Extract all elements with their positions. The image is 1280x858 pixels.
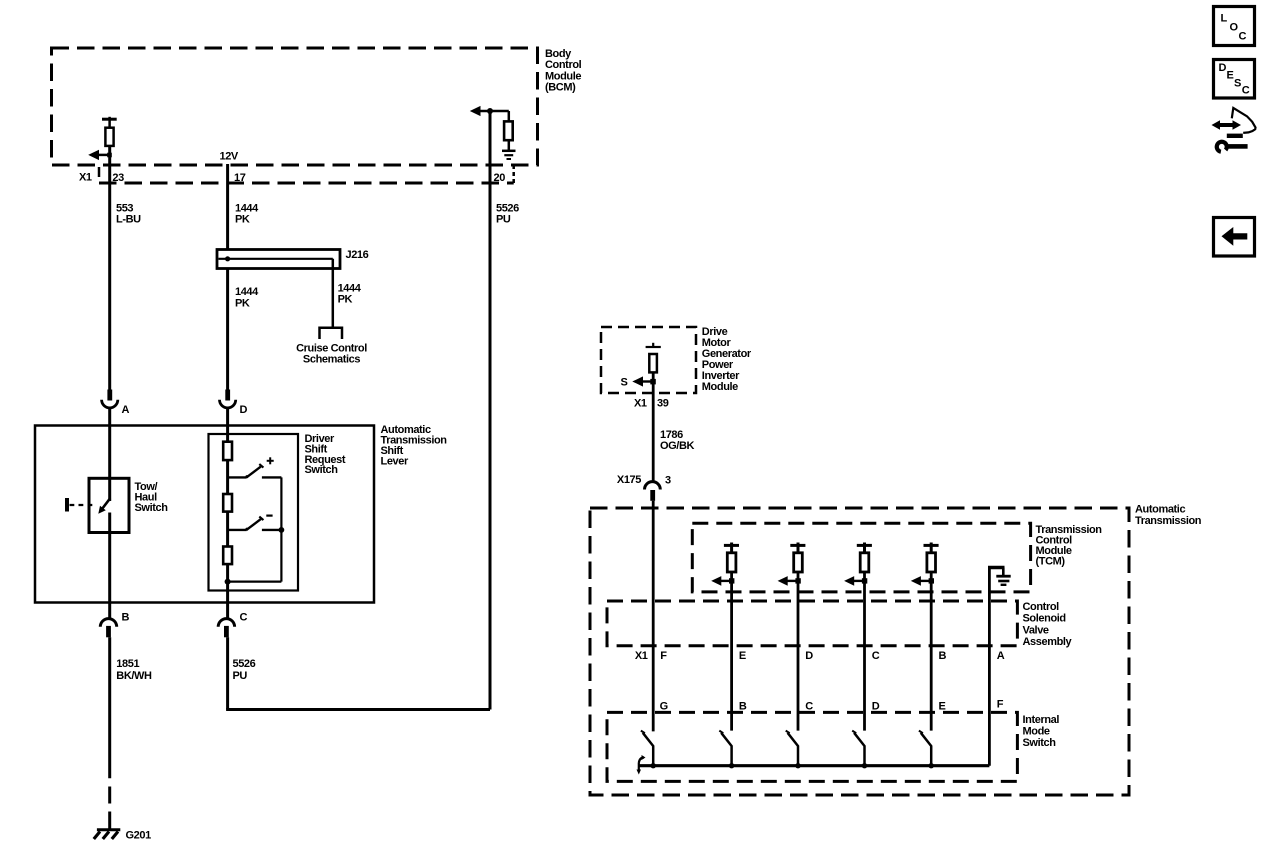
svg-text:1851: 1851 bbox=[116, 658, 139, 670]
svg-text:Internal: Internal bbox=[1023, 714, 1060, 726]
svg-text:Body: Body bbox=[545, 48, 572, 60]
svg-text:Switch: Switch bbox=[135, 502, 169, 514]
svg-text:C: C bbox=[1239, 31, 1247, 43]
svg-text:B: B bbox=[739, 701, 747, 713]
svg-text:X1: X1 bbox=[635, 650, 648, 662]
svg-text:Lever: Lever bbox=[381, 456, 409, 468]
svg-text:L: L bbox=[1221, 13, 1228, 25]
svg-text:G201: G201 bbox=[126, 830, 152, 842]
svg-text:Switch: Switch bbox=[305, 464, 339, 476]
svg-text:O: O bbox=[1230, 22, 1239, 34]
svg-text:PU: PU bbox=[233, 670, 248, 682]
svg-text:G: G bbox=[660, 701, 668, 713]
svg-text:Control: Control bbox=[1023, 601, 1060, 613]
svg-text:Transmission: Transmission bbox=[1135, 515, 1202, 527]
svg-text:A: A bbox=[997, 650, 1005, 662]
svg-text:Module: Module bbox=[702, 381, 738, 393]
svg-text:17: 17 bbox=[234, 172, 246, 184]
svg-text:X175: X175 bbox=[617, 474, 641, 486]
svg-text:E: E bbox=[939, 701, 946, 713]
svg-text:PK: PK bbox=[235, 214, 250, 226]
svg-text:C: C bbox=[805, 701, 813, 713]
svg-text:C: C bbox=[1242, 85, 1250, 97]
svg-text:3: 3 bbox=[665, 475, 671, 487]
svg-text:Schematics: Schematics bbox=[303, 354, 360, 366]
svg-text:Switch: Switch bbox=[1023, 737, 1057, 749]
svg-text:L-BU: L-BU bbox=[116, 214, 141, 226]
svg-text:1444: 1444 bbox=[235, 286, 259, 298]
svg-text:C: C bbox=[872, 650, 880, 662]
svg-text:PK: PK bbox=[338, 294, 353, 306]
svg-text:PK: PK bbox=[235, 297, 250, 309]
svg-text:S: S bbox=[621, 377, 628, 389]
svg-text:20: 20 bbox=[494, 172, 506, 184]
svg-text:S: S bbox=[1234, 77, 1241, 89]
svg-text:F: F bbox=[660, 650, 667, 662]
svg-text:D: D bbox=[1219, 62, 1227, 74]
svg-text:E: E bbox=[1227, 70, 1234, 82]
svg-text:D: D bbox=[872, 701, 880, 713]
svg-text:J216: J216 bbox=[346, 249, 369, 261]
svg-text:B: B bbox=[122, 612, 130, 624]
svg-text:X1: X1 bbox=[79, 172, 92, 184]
svg-text:Assembly: Assembly bbox=[1023, 636, 1073, 648]
svg-text:OG/BK: OG/BK bbox=[660, 440, 695, 452]
svg-text:D: D bbox=[805, 650, 813, 662]
svg-text:E: E bbox=[739, 650, 746, 662]
svg-text:(BCM): (BCM) bbox=[545, 81, 576, 93]
svg-text:BK/WH: BK/WH bbox=[116, 670, 152, 682]
svg-text:12V: 12V bbox=[220, 151, 239, 163]
svg-text:(TCM): (TCM) bbox=[1036, 556, 1066, 568]
svg-text:F: F bbox=[997, 699, 1004, 711]
svg-text:23: 23 bbox=[112, 172, 124, 184]
svg-text:1786: 1786 bbox=[660, 429, 683, 441]
svg-text:Mode: Mode bbox=[1023, 725, 1050, 737]
svg-text:X1: X1 bbox=[634, 397, 647, 409]
svg-text:Solenoid: Solenoid bbox=[1023, 613, 1066, 625]
svg-text:5526: 5526 bbox=[233, 658, 256, 670]
svg-text:39: 39 bbox=[657, 397, 669, 409]
svg-text:B: B bbox=[939, 650, 947, 662]
svg-text:Valve: Valve bbox=[1023, 624, 1049, 636]
svg-text:Automatic: Automatic bbox=[1135, 504, 1185, 516]
svg-text:Cruise Control: Cruise Control bbox=[296, 342, 367, 354]
svg-text:C: C bbox=[240, 612, 248, 624]
svg-text:A: A bbox=[122, 404, 130, 416]
svg-text:PU: PU bbox=[496, 214, 511, 226]
svg-text:D: D bbox=[240, 404, 248, 416]
